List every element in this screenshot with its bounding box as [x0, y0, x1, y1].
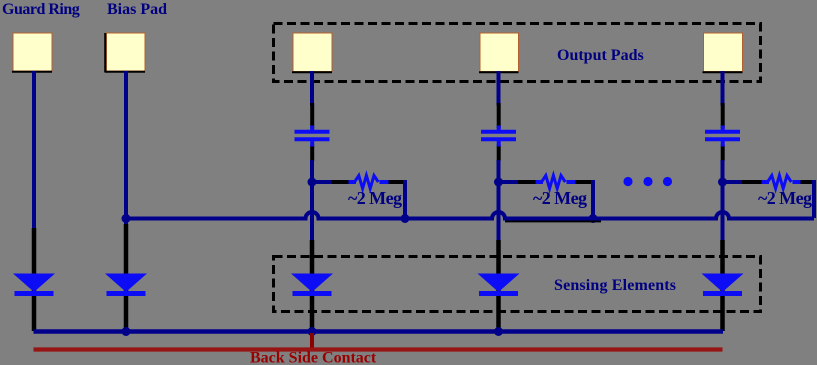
wire bias vertical blue — [124, 71, 128, 225]
resistor R1 symbol — [349, 176, 389, 189]
node bias junction — [122, 214, 131, 223]
node output1 bottom junction — [308, 327, 317, 336]
svg-text:Output Pads: Output Pads — [557, 47, 644, 64]
diode D5 sensing 3 — [702, 274, 744, 297]
diode D2 bias — [105, 274, 147, 297]
resistor R3 symbol — [762, 176, 801, 189]
svg-text:Guard Ring: Guard Ring — [2, 1, 80, 18]
resistor R1 leads — [312, 180, 405, 184]
node R1-bias junction — [401, 214, 410, 223]
wire guard vertical black — [32, 228, 37, 331]
wire output3 capacitor lead black — [721, 103, 725, 129]
pad P2 Bias pad — [105, 33, 146, 72]
node R2-bias junction — [589, 214, 598, 223]
wire output2 lower black — [496, 240, 501, 331]
pad P5 output pad 3 — [703, 33, 743, 72]
output pads dashed box — [274, 24, 761, 82]
wire output3 lower black — [720, 240, 725, 331]
capacitor C3 — [705, 126, 740, 147]
wire output2 capacitor lead black — [497, 103, 501, 129]
node output1 junction — [308, 178, 317, 187]
wire bias vertical black — [124, 224, 129, 332]
capacitor C1 — [295, 126, 330, 147]
resistor R2 leads — [499, 180, 594, 184]
wire substrate tap red — [310, 333, 314, 348]
diode D3 sensing 1 — [291, 274, 333, 297]
wire output1 capacitor lead black — [310, 103, 314, 129]
wire output3 middle blue — [721, 160, 725, 242]
svg-text:Sensing Elements: Sensing Elements — [554, 277, 676, 294]
svg-text:~2 Meg: ~2 Meg — [348, 188, 402, 208]
wire bottom bus — [34, 329, 724, 334]
svg-text:~2 Meg: ~2 Meg — [758, 188, 812, 208]
wire guard vertical blue — [32, 71, 36, 228]
wire output2 upper blue — [497, 71, 501, 106]
node output2 bottom junction — [494, 327, 503, 336]
node output3 junction — [718, 178, 727, 187]
diode D4 sensing 2 — [478, 274, 520, 297]
wire output1 lower black — [310, 240, 315, 331]
svg-text:Bias Pad: Bias Pad — [107, 1, 167, 18]
wire output2 middle blue — [497, 160, 501, 242]
svg-text:Back Side Contact: Back Side Contact — [250, 350, 377, 365]
pad P3 output pad 1 — [292, 33, 332, 72]
pad P4 output pad 2 — [479, 33, 519, 72]
resistor R3 leads — [723, 180, 815, 184]
capacitor C2 — [481, 126, 516, 147]
ellipsis dots — [623, 177, 672, 186]
wire R3 drop — [812, 180, 816, 218]
node bias bottom junction — [122, 327, 131, 336]
node output2 junction — [494, 178, 503, 187]
wire R1 drop — [403, 180, 407, 218]
wire output1 upper blue — [310, 71, 314, 106]
back side contact line — [34, 347, 723, 351]
resistor R2 symbol — [536, 176, 576, 189]
wire output3 upper blue — [721, 71, 725, 106]
sensing elements dashed box — [274, 257, 761, 312]
svg-text:~2 Meg: ~2 Meg — [533, 188, 587, 208]
wire R2 drop — [591, 180, 595, 218]
diode D1 guard — [13, 274, 55, 297]
wire output1 middle blue — [310, 160, 314, 242]
pad P1 Guard Ring pad — [12, 33, 52, 72]
wire bias horizontal with hops — [505, 220, 601, 222]
